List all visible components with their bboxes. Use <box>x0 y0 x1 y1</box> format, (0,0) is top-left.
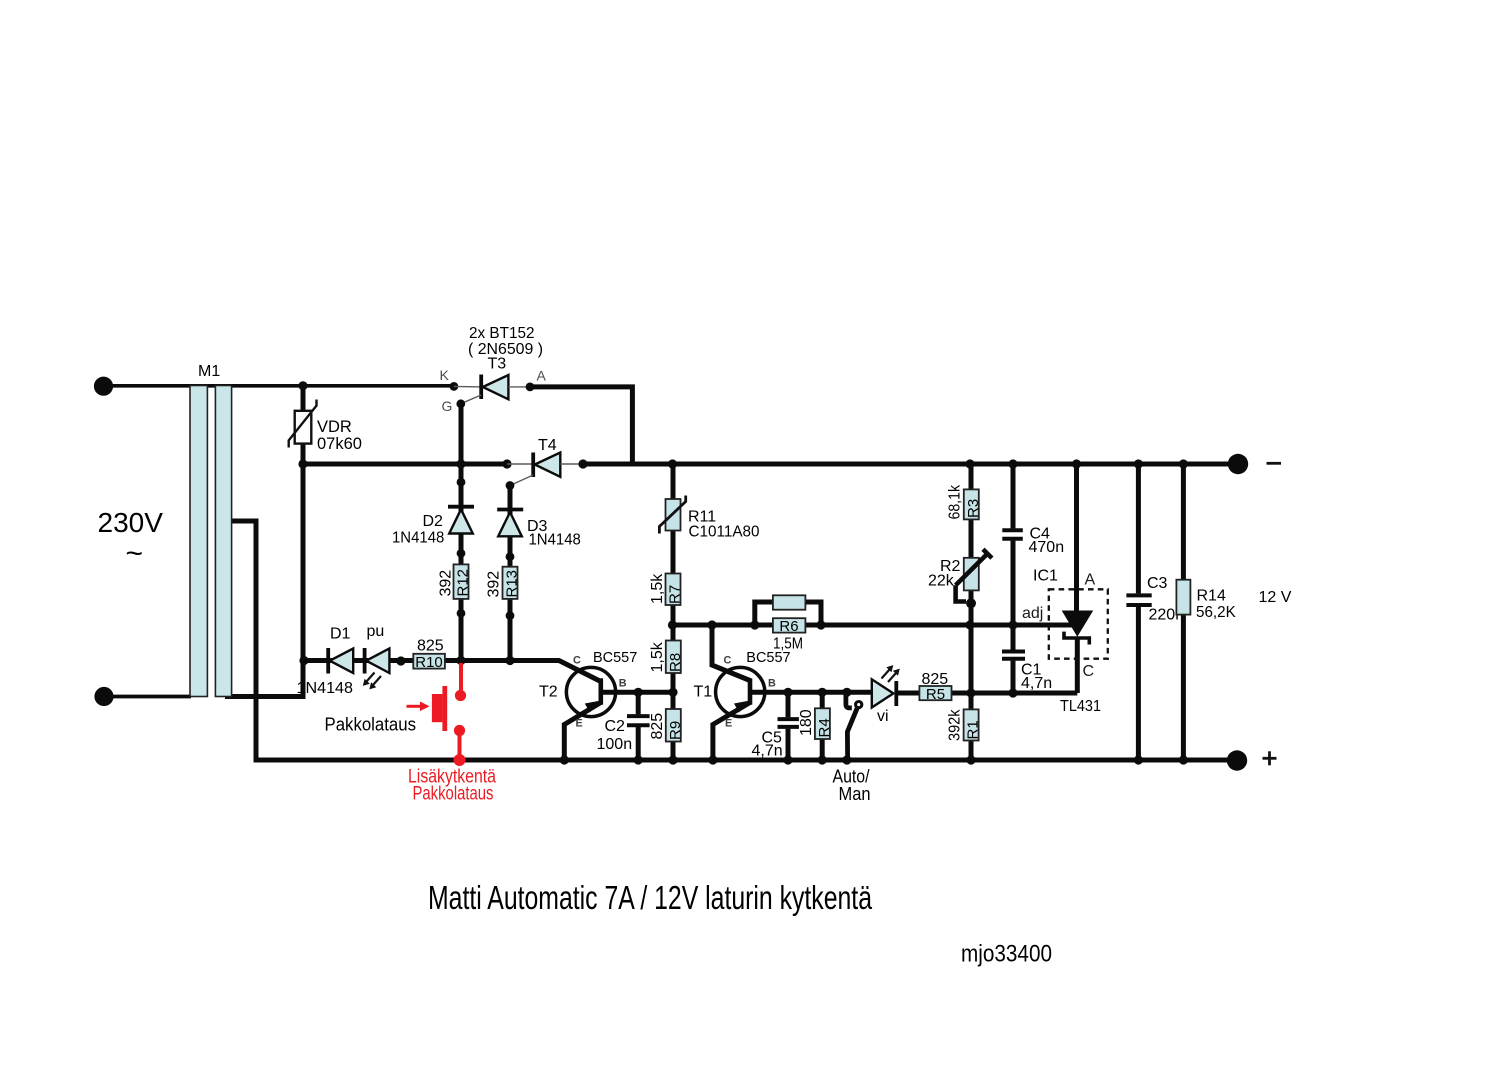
node A <box>526 383 535 392</box>
label 1,5M <box>773 636 803 653</box>
svg-text:( 2N6509 ): ( 2N6509 ) <box>468 341 543 358</box>
terminal input top <box>94 377 113 396</box>
wire red from lower contact to bottom rail <box>458 733 462 756</box>
node R2 wiper junction <box>966 598 976 608</box>
transformer M1 winding bars <box>190 386 232 697</box>
resistor R14 <box>1176 580 1190 615</box>
thermistor R11 C1011A80 <box>659 496 685 534</box>
thyristor T3 <box>461 375 531 404</box>
node R14 top <box>1179 459 1188 468</box>
svg-text:pu: pu <box>367 623 385 640</box>
svg-text:470n: 470n <box>1029 539 1065 556</box>
wire C4 C1 chain vertical <box>1011 464 1016 693</box>
svg-text:C2: C2 <box>605 718 626 735</box>
label R14 <box>1197 588 1226 605</box>
resistor R6 with parallel loop <box>755 595 821 635</box>
svg-text:R12: R12 <box>455 569 472 597</box>
label ( 2N6509 ) <box>468 341 543 358</box>
node C4 top on negative rail <box>1008 459 1017 468</box>
svg-text:392k: 392k <box>947 709 964 741</box>
svg-text:mjo33400: mjo33400 <box>961 941 1052 968</box>
svg-text:R9: R9 <box>667 721 684 740</box>
node R2 chain on adj rail <box>965 620 974 629</box>
wire C2 branch <box>636 692 641 760</box>
pin E of T2 <box>576 717 583 729</box>
node R14 bottom on rail <box>1179 755 1188 764</box>
node above R12 <box>457 549 466 558</box>
node G <box>456 399 465 408</box>
wire R11 R7 R8 R9 chain vertical <box>671 464 676 760</box>
wire R3 R2 R1 chain vertical <box>969 464 974 760</box>
wire D3 chain vertical from gate node down to R10 line <box>508 486 513 661</box>
svg-text:R5: R5 <box>926 686 945 703</box>
svg-text:~: ~ <box>126 537 144 570</box>
node below R12 <box>457 609 466 618</box>
node D1 line start <box>299 656 308 665</box>
label 4,7n for C5 <box>752 743 783 760</box>
label D3 1N4148 <box>529 532 581 549</box>
node C1 bottom on cathode line <box>1008 688 1017 697</box>
wire negative rail (thick) from VDR to T4 <box>303 462 507 467</box>
resistor R13 <box>503 567 521 599</box>
label C4 <box>1030 526 1051 543</box>
node VDR bottom on negative rail <box>298 459 307 468</box>
node C3 top <box>1134 459 1143 468</box>
terminal input bottom <box>94 687 113 706</box>
node C5 bottom on rail <box>783 755 792 764</box>
label D3 <box>527 518 548 535</box>
svg-text:1N4148: 1N4148 <box>392 530 444 547</box>
pushbutton Pakkolataus (red) <box>407 686 448 731</box>
svg-text:12 V: 12 V <box>1259 589 1292 606</box>
node red on bottom rail <box>454 754 466 766</box>
resistor R1 <box>964 709 982 740</box>
svg-text:VDR: VDR <box>317 418 352 436</box>
label C5 <box>762 730 783 747</box>
label 180 for R4 <box>798 709 815 736</box>
svg-text:R8: R8 <box>667 653 684 672</box>
wire C5 branch <box>786 692 791 760</box>
node VDR top <box>298 381 307 390</box>
node R1 top on base line <box>966 688 975 697</box>
label M1 <box>198 363 220 380</box>
label D2 <box>423 513 444 530</box>
label minus sign <box>1267 462 1282 465</box>
node C2 top <box>634 688 643 697</box>
capacitor C5 <box>777 717 801 729</box>
wire secondary bottom tap to VDR vertical <box>225 694 306 699</box>
wire R4 branch <box>820 692 825 760</box>
svg-text:D1: D1 <box>330 626 351 643</box>
svg-text:G: G <box>442 398 453 414</box>
svg-text:1,5k: 1,5k <box>649 641 666 672</box>
label C1011A80 <box>689 524 760 541</box>
label T3 <box>488 356 507 373</box>
svg-text:C1011A80: C1011A80 <box>689 524 760 541</box>
wire C3 branch <box>1136 464 1141 760</box>
node red upper contact <box>455 690 466 701</box>
svg-text:392: 392 <box>438 570 455 597</box>
diode D3 1N4148 <box>497 510 523 537</box>
label Man <box>839 784 871 804</box>
terminal plus <box>1227 750 1247 770</box>
label 56,2K <box>1196 604 1236 621</box>
svg-text:1N4148: 1N4148 <box>529 532 581 549</box>
wire thin K to T3 cathode <box>454 385 482 388</box>
label title <box>428 879 872 916</box>
label 100n <box>597 736 633 753</box>
label 392 for R12 <box>438 570 455 597</box>
label T1 <box>694 684 713 701</box>
svg-text:825: 825 <box>417 638 444 655</box>
label 2x BT152 <box>469 325 535 342</box>
svg-text:T4: T4 <box>538 437 557 454</box>
wire secondary mid tap down to bottom rail <box>225 521 256 760</box>
label 4,7n for C1 <box>1021 675 1052 692</box>
terminal minus <box>1228 454 1248 474</box>
node R9 bottom on rail <box>668 755 677 764</box>
svg-text:Pakkolataus: Pakkolataus <box>413 784 494 805</box>
label K <box>440 367 450 383</box>
transistor T2 BC557 <box>564 667 673 760</box>
node T4 gate <box>506 481 515 490</box>
label Lisakytkenta (red) <box>408 767 496 788</box>
pin adj of IC1 <box>1022 605 1043 622</box>
ic IC1 TL431 <box>1049 464 1108 693</box>
svg-text:T3: T3 <box>488 356 507 373</box>
node R1 bottom on rail <box>966 755 975 764</box>
svg-text:825: 825 <box>649 713 666 740</box>
label T4 <box>538 437 557 454</box>
node R4 top <box>818 688 827 697</box>
label mjo33400 <box>961 941 1052 968</box>
label Auto/ <box>833 767 870 787</box>
svg-text:R10: R10 <box>415 654 443 671</box>
pin B of T2 <box>619 678 627 690</box>
label vi <box>877 708 889 725</box>
svg-text:Man: Man <box>839 784 871 804</box>
svg-text:adj: adj <box>1022 605 1043 622</box>
node switch bottom on rail <box>842 755 851 764</box>
node chain top on negative rail <box>668 459 677 468</box>
node above R13 <box>506 552 515 561</box>
label Pakkolataus (red) <box>413 784 494 805</box>
wire bottom positive rail <box>254 758 1238 763</box>
node R6 left <box>750 620 759 629</box>
label C3 <box>1147 575 1168 592</box>
svg-text:T1: T1 <box>694 684 713 701</box>
svg-text:R4: R4 <box>816 718 833 737</box>
svg-text:A: A <box>1085 572 1096 589</box>
svg-text:R1: R1 <box>965 720 982 739</box>
node T2 emitter on bottom rail <box>560 755 569 764</box>
wire VDR vertical from top wire to bottom tap <box>301 386 306 697</box>
capacitor C4 <box>1001 528 1025 540</box>
node D2 chain top <box>457 478 466 487</box>
svg-text:1N4148: 1N4148 <box>297 680 354 697</box>
svg-text:07k60: 07k60 <box>317 435 362 453</box>
svg-text:R13: R13 <box>504 570 521 598</box>
svg-text:R6: R6 <box>779 618 798 635</box>
capacitor C1 <box>1001 650 1026 661</box>
wire adj rail from R7 junction to TL431 <box>673 623 1072 628</box>
resistor R7 <box>666 574 684 606</box>
capacitor C2 <box>626 714 651 727</box>
node C3 bottom on rail <box>1134 755 1143 764</box>
label A <box>537 368 547 384</box>
svg-text:R3: R3 <box>965 499 982 518</box>
node gate chain crossing negative rail <box>456 459 465 468</box>
svg-text:T2: T2 <box>539 684 558 701</box>
svg-text:B: B <box>768 678 776 690</box>
svg-text:22k: 22k <box>928 573 955 590</box>
node T4 anode on rail <box>578 459 587 468</box>
led vi <box>872 665 900 707</box>
label T2 <box>539 684 558 701</box>
svg-text:R7: R7 <box>667 585 684 604</box>
transistor T1 BC557 <box>712 625 872 760</box>
label 1,5k for R8 <box>649 641 666 672</box>
svg-text:4,7n: 4,7n <box>752 743 783 760</box>
resistor R4 <box>815 708 833 739</box>
label IC1 <box>1033 568 1058 585</box>
node T1 emitter on bottom rail <box>708 755 717 764</box>
label 392 for R13 <box>486 571 503 598</box>
svg-text:C3: C3 <box>1147 575 1168 592</box>
svg-text:TL431: TL431 <box>1060 698 1101 715</box>
node T1 collector on adj rail <box>707 620 716 629</box>
label R2 <box>940 558 961 575</box>
svg-text:Matti Automatic 7A / 12V latur: Matti Automatic 7A / 12V laturin kytkent… <box>428 879 872 916</box>
diode D1 1N4148 <box>328 648 353 674</box>
trimmer R2 22k <box>956 549 992 601</box>
wire T3 gate vertical down through rail to D2 chain and R10 junction <box>459 404 464 661</box>
svg-text:M1: M1 <box>198 363 220 380</box>
node R8 R9 junction on base line <box>668 688 677 697</box>
label R11 <box>688 509 716 526</box>
svg-text:K: K <box>440 367 450 383</box>
wire D1 R10 line from VDR vertical to T2 collector <box>303 661 601 682</box>
switch Auto/Man <box>846 692 862 757</box>
node IC1 anode on negative rail <box>1072 459 1081 468</box>
node switch top <box>842 688 851 697</box>
led pu <box>363 648 390 689</box>
svg-text:E: E <box>725 717 732 729</box>
svg-text:C: C <box>1083 663 1095 680</box>
svg-text:R14: R14 <box>1197 588 1226 605</box>
thyristor T4 <box>511 453 584 486</box>
wire from T3 anode A over and down to negative rail <box>530 387 632 464</box>
svg-text:180: 180 <box>798 709 815 736</box>
node C5 top <box>783 688 792 697</box>
resistor R8 <box>666 641 684 674</box>
wire primary top from left terminal to VDR node and K <box>107 384 454 388</box>
node before R10 <box>396 656 405 665</box>
pin C of IC1 <box>1083 663 1095 680</box>
label 22k <box>928 573 955 590</box>
label 470n <box>1029 539 1065 556</box>
svg-text:vi: vi <box>877 708 889 725</box>
label 392k for R1 <box>947 709 964 741</box>
label Pakkolataus (black) <box>325 714 417 735</box>
label D2 1N4148 <box>392 530 444 547</box>
pin B of T1 <box>768 678 776 690</box>
label D1 1N4148 <box>297 680 354 697</box>
varistor VDR <box>289 400 317 448</box>
svg-text:D2: D2 <box>423 513 444 530</box>
label C1 <box>1021 662 1042 679</box>
diode D2 1N4148 <box>448 507 474 534</box>
resistor R9 <box>666 709 684 742</box>
svg-text:56,2K: 56,2K <box>1196 604 1236 621</box>
node red lower contact <box>454 725 465 736</box>
label pu <box>367 623 385 640</box>
svg-text:4,7n: 4,7n <box>1021 675 1052 692</box>
label 68,1k for R3 <box>947 484 964 519</box>
svg-text:A: A <box>537 368 547 384</box>
node R10 junction <box>456 656 465 665</box>
svg-text:B: B <box>619 678 627 690</box>
node R4 bottom on rail <box>818 755 827 764</box>
svg-text:Pakkolataus: Pakkolataus <box>325 714 417 735</box>
node C2 bottom on rail <box>634 755 643 764</box>
wire from vi to R5 to TL431 cathode line <box>896 691 1077 696</box>
wire thin rail to T4 cathode <box>507 463 534 465</box>
label ~ <box>126 537 144 570</box>
label 825 for R9 <box>649 713 666 740</box>
label TL431 <box>1060 698 1101 715</box>
wire R14 branch <box>1181 464 1186 760</box>
svg-text:1,5k: 1,5k <box>649 573 666 604</box>
label 1,5k for R7 <box>649 573 666 604</box>
label 12 V <box>1259 589 1292 606</box>
resistor R10 <box>413 654 445 671</box>
svg-text:230V: 230V <box>98 507 164 538</box>
label VDR 07k60 <box>317 418 362 453</box>
label 825 for R10 <box>417 638 444 655</box>
pin E of T1 <box>725 717 732 729</box>
node D3 chain junction on R10 line <box>505 656 514 665</box>
svg-text:825: 825 <box>922 671 949 688</box>
svg-text:E: E <box>576 717 583 729</box>
svg-text:100n: 100n <box>597 736 633 753</box>
wire primary bottom from left terminal to transformer <box>107 695 191 699</box>
svg-text:68,1k: 68,1k <box>947 484 964 519</box>
node R7 R8 junction on adj rail <box>668 620 677 629</box>
resistor R5 <box>919 686 951 703</box>
svg-text:2x BT152: 2x BT152 <box>469 325 535 342</box>
label 230V <box>98 507 164 538</box>
node R6 right <box>816 620 825 629</box>
svg-text:C: C <box>573 655 581 667</box>
node C4 C1 junction on adj rail <box>1008 620 1017 629</box>
capacitor C3 <box>1125 593 1153 607</box>
svg-text:BC557: BC557 <box>593 650 637 666</box>
label BC557 for T1 <box>746 650 790 666</box>
label 825 for R5 <box>922 671 949 688</box>
svg-text:C: C <box>724 655 732 667</box>
label BC557 for T2 <box>593 650 637 666</box>
pin C of T2 <box>573 655 581 667</box>
svg-text:IC1: IC1 <box>1033 568 1058 585</box>
svg-text:BC557: BC557 <box>746 650 790 666</box>
label D1 <box>330 626 351 643</box>
wire red from R10 junction down to upper contact <box>459 663 463 690</box>
wire negative rail from T4 anode to minus terminal <box>583 462 1238 467</box>
node K <box>450 382 459 391</box>
label plus sign <box>1263 751 1277 765</box>
pin C of T1 <box>724 655 732 667</box>
node below R13 <box>506 611 515 620</box>
resistor R12 <box>454 564 472 599</box>
node T4 cathode side on rail <box>502 459 511 468</box>
node R3 top on negative rail <box>965 459 974 468</box>
label 220n <box>1149 607 1185 624</box>
resistor R3 <box>964 489 982 519</box>
pin A of IC1 <box>1085 572 1096 589</box>
label G <box>442 398 453 414</box>
svg-text:392: 392 <box>486 571 503 598</box>
label C2 <box>605 718 626 735</box>
